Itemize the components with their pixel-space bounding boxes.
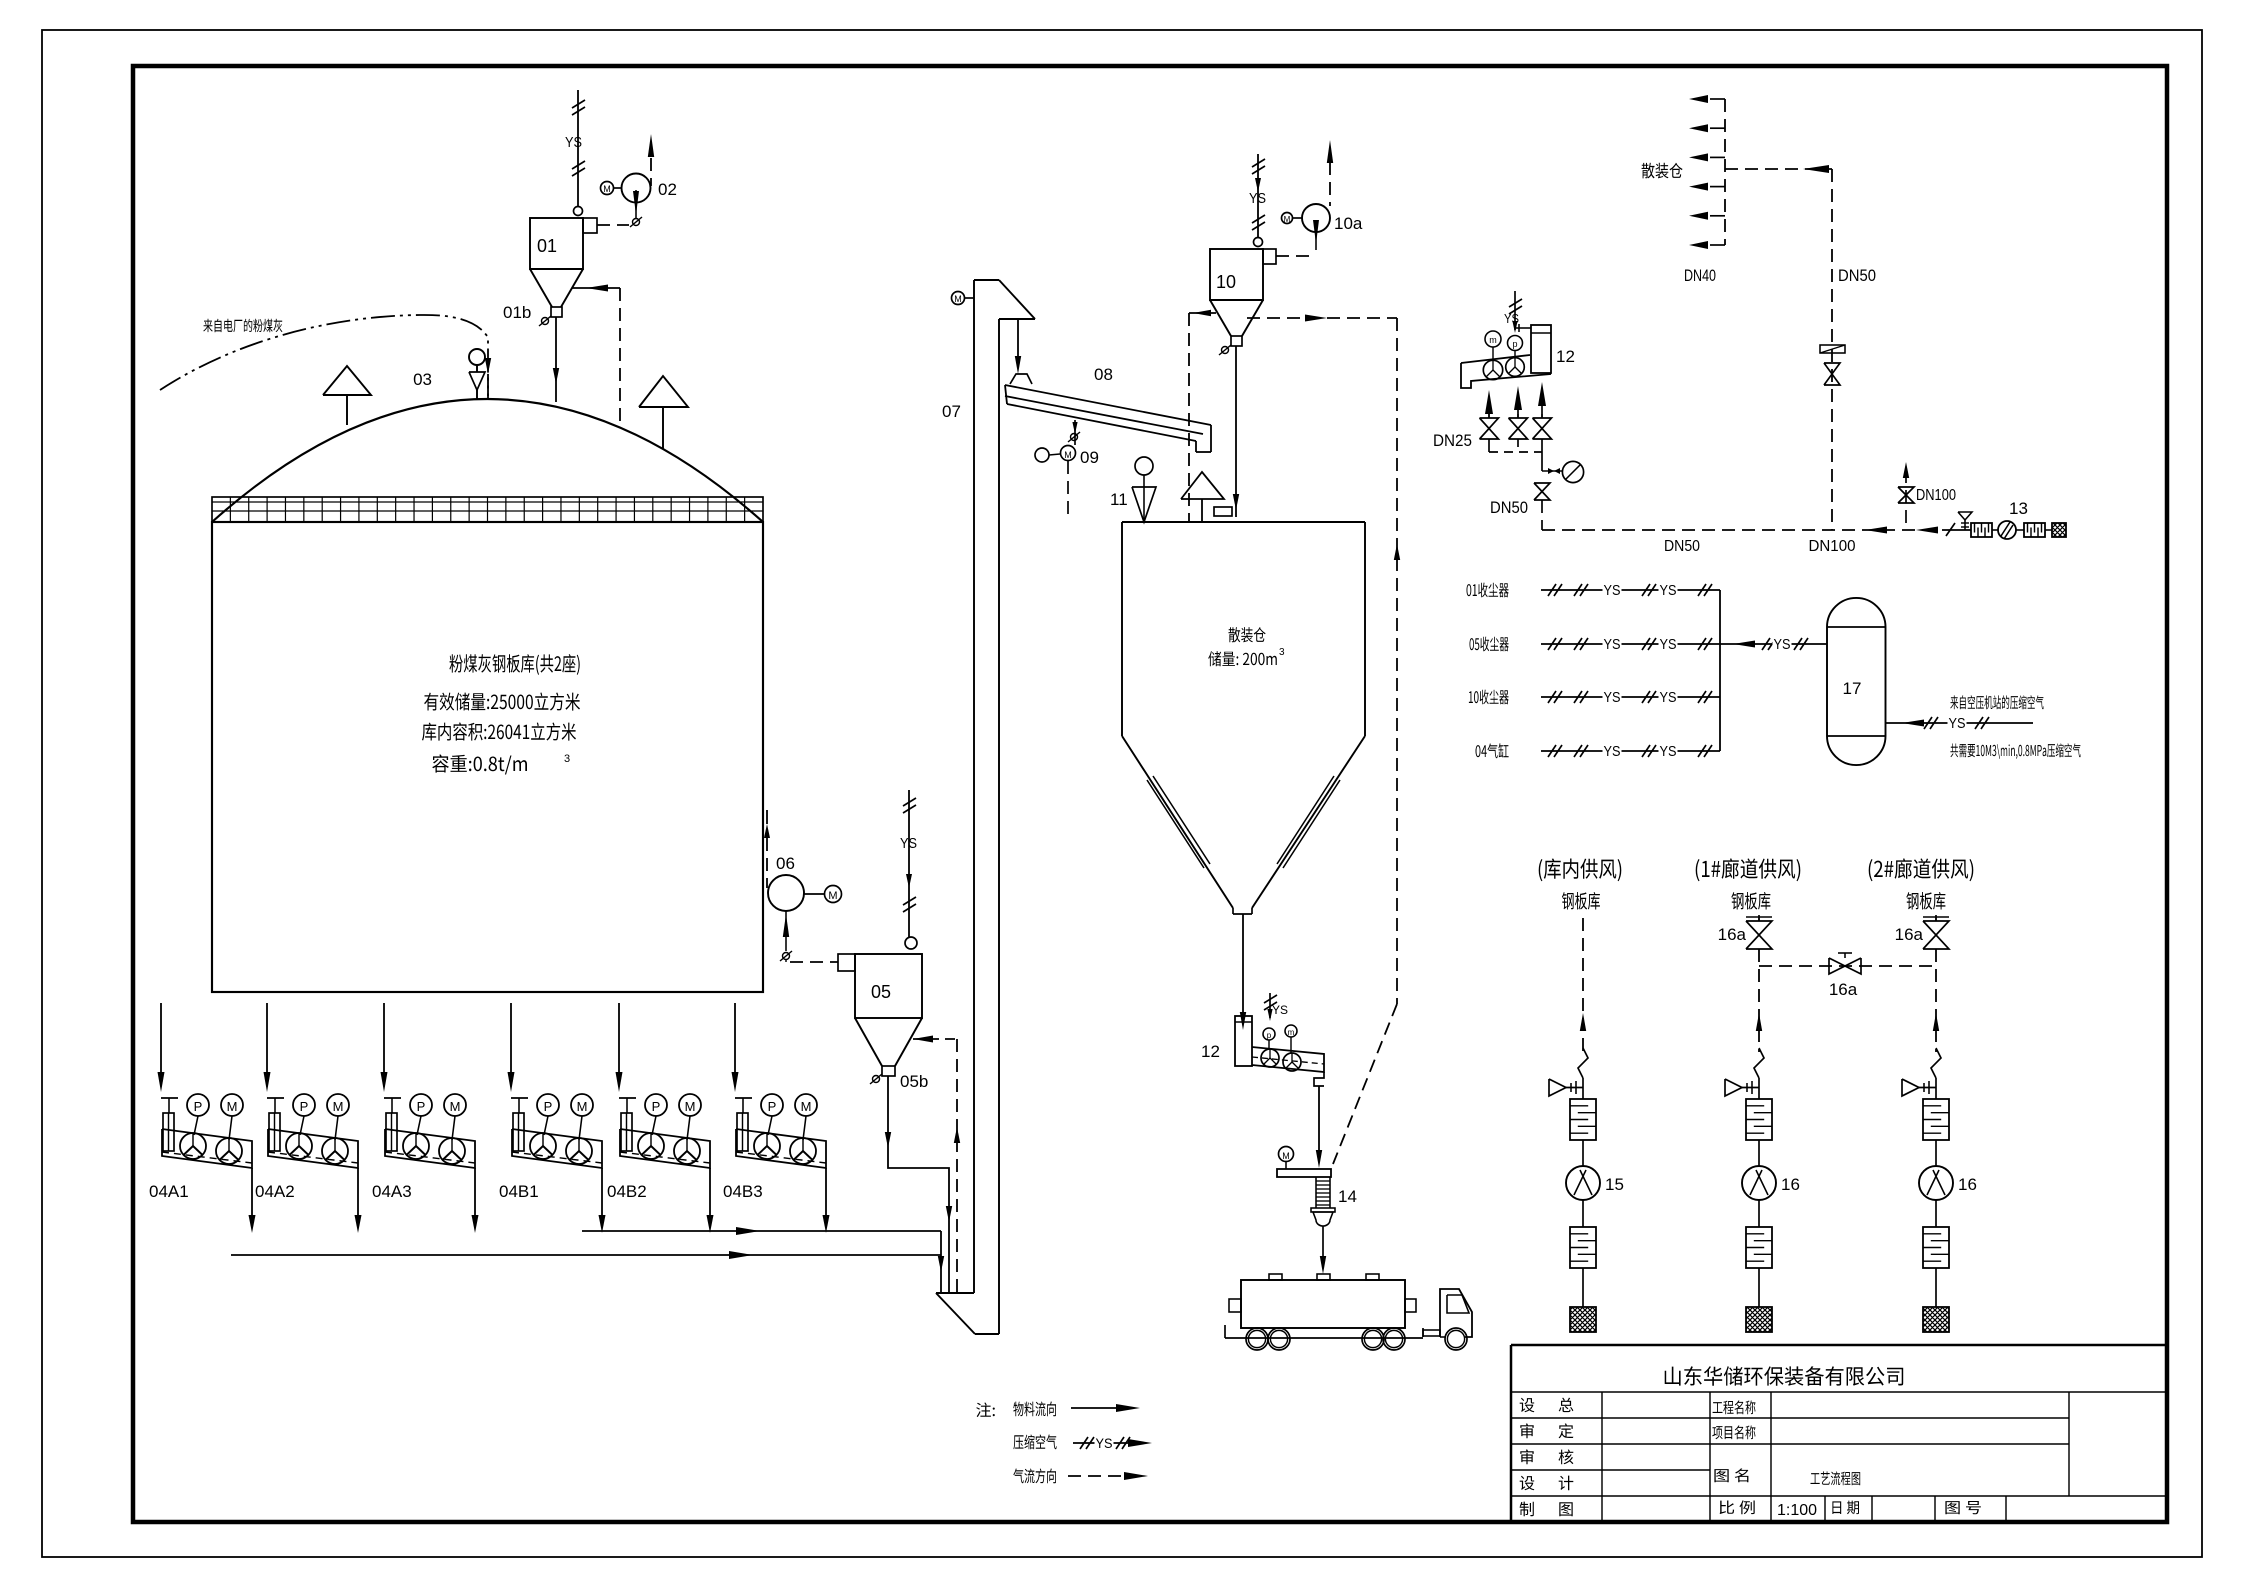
svg-text:04B2: 04B2 — [607, 1182, 647, 1201]
svg-text:p: p — [1267, 1031, 1272, 1040]
svg-text:DN50: DN50 — [1838, 266, 1876, 285]
svg-text:P: P — [544, 1099, 553, 1114]
svg-text:12: 12 — [1556, 347, 1575, 366]
svg-text:09: 09 — [1080, 448, 1099, 467]
svg-text:DN100: DN100 — [1916, 487, 1956, 504]
svg-text:YS: YS — [1660, 689, 1677, 706]
svg-text:05: 05 — [871, 982, 891, 1002]
svg-text:M: M — [450, 1099, 461, 1114]
svg-text:M: M — [954, 294, 962, 304]
svg-text:1:100: 1:100 — [1777, 1502, 1817, 1519]
svg-text:DN40: DN40 — [1684, 266, 1716, 285]
svg-text:M: M — [603, 184, 611, 194]
svg-text:M: M — [685, 1099, 696, 1114]
svg-text:M: M — [577, 1099, 588, 1114]
svg-text:M: M — [1282, 1151, 1290, 1161]
svg-text:m: m — [1489, 335, 1497, 345]
svg-text:05b: 05b — [900, 1072, 928, 1091]
svg-text:14: 14 — [1338, 1187, 1357, 1206]
svg-text:P: P — [417, 1099, 426, 1114]
svg-text:01: 01 — [537, 236, 557, 256]
svg-text:P: P — [300, 1099, 309, 1114]
svg-text:YS: YS — [1774, 636, 1791, 653]
svg-text:DN50: DN50 — [1664, 538, 1700, 555]
svg-text:10a: 10a — [1334, 214, 1363, 233]
svg-text:YS: YS — [1604, 689, 1621, 706]
svg-text:YS: YS — [1660, 636, 1677, 653]
svg-text:YS: YS — [1660, 743, 1677, 760]
svg-text:17: 17 — [1843, 679, 1862, 698]
svg-text:16: 16 — [1781, 1175, 1800, 1194]
svg-text:16a: 16a — [1895, 925, 1924, 944]
svg-text:YS: YS — [1660, 582, 1677, 599]
svg-text:04A1: 04A1 — [149, 1182, 189, 1201]
svg-text:YS: YS — [1604, 636, 1621, 653]
svg-text:M: M — [1064, 450, 1072, 460]
svg-text:m: m — [1288, 1028, 1295, 1037]
svg-text:16a: 16a — [1718, 925, 1747, 944]
svg-text:YS: YS — [1272, 1003, 1288, 1017]
svg-text:DN100: DN100 — [1809, 538, 1856, 555]
svg-text:16: 16 — [1958, 1175, 1977, 1194]
svg-text:YS: YS — [1949, 715, 1966, 732]
svg-text:12: 12 — [1201, 1042, 1220, 1061]
svg-text:M: M — [801, 1099, 812, 1114]
svg-text:04B3: 04B3 — [723, 1182, 763, 1201]
svg-text:DN25: DN25 — [1433, 431, 1472, 450]
svg-text:YS: YS — [1604, 743, 1621, 760]
svg-text:3: 3 — [1279, 647, 1285, 658]
svg-text:08: 08 — [1094, 365, 1113, 384]
svg-text:YS: YS — [1504, 311, 1519, 326]
svg-text:02: 02 — [658, 180, 677, 199]
svg-text:10: 10 — [1216, 272, 1236, 292]
svg-text:YS: YS — [565, 134, 582, 151]
svg-text:3: 3 — [564, 753, 570, 765]
svg-text:M: M — [1284, 215, 1291, 224]
svg-text:M: M — [227, 1099, 238, 1114]
svg-text:13: 13 — [2009, 499, 2028, 518]
svg-text:P: P — [768, 1099, 777, 1114]
svg-text:P: P — [194, 1099, 203, 1114]
svg-text:04A3: 04A3 — [372, 1182, 412, 1201]
svg-text:YS: YS — [1604, 582, 1621, 599]
svg-text:M: M — [333, 1099, 344, 1114]
svg-text:04B1: 04B1 — [499, 1182, 539, 1201]
svg-text:11: 11 — [1110, 490, 1128, 509]
svg-text:15: 15 — [1605, 1175, 1624, 1194]
svg-text:06: 06 — [776, 854, 795, 873]
svg-text:16a: 16a — [1829, 980, 1858, 999]
svg-text:07: 07 — [942, 402, 961, 421]
svg-text:M: M — [828, 890, 837, 902]
svg-text:YS: YS — [1096, 1435, 1113, 1451]
svg-text:03: 03 — [413, 370, 432, 389]
svg-text:DN50: DN50 — [1490, 498, 1528, 517]
svg-text:YS: YS — [1249, 190, 1266, 207]
svg-text:04A2: 04A2 — [255, 1182, 295, 1201]
svg-text:p: p — [1512, 339, 1517, 349]
svg-text:01b: 01b — [503, 303, 531, 322]
svg-text:P: P — [652, 1099, 661, 1114]
svg-text:YS: YS — [900, 835, 917, 852]
